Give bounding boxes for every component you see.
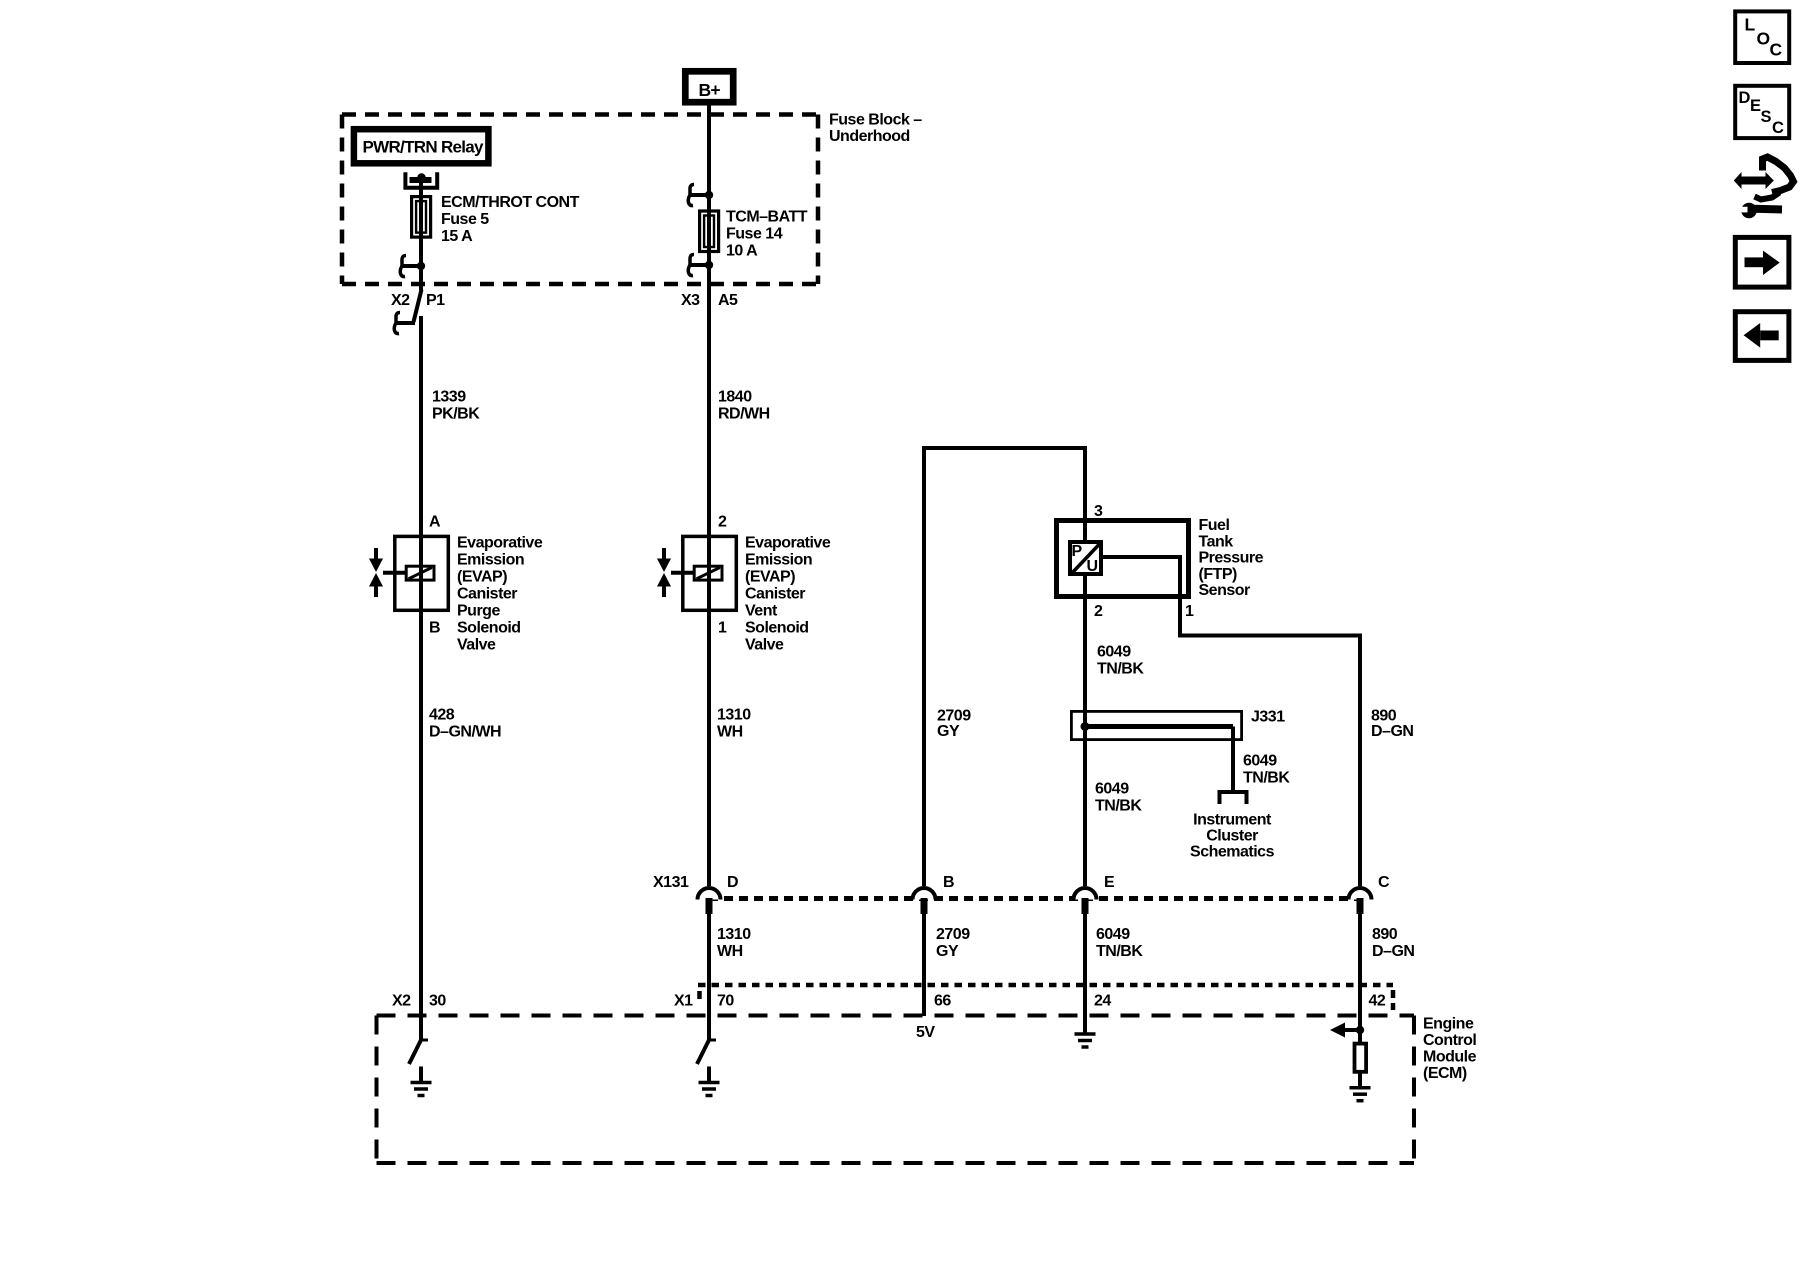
svg-text:Purge: Purge — [457, 603, 500, 620]
svg-text:D–GN: D–GN — [1371, 723, 1413, 740]
svg-text:X131: X131 — [653, 874, 689, 891]
wire 1310 WH lower — [707, 914, 711, 1040]
svg-text:Solenoid: Solenoid — [745, 620, 809, 637]
splice J331 — [1071, 711, 1241, 739]
svg-text:E: E — [1104, 874, 1115, 891]
fuse block underhood dashed box — [342, 115, 818, 285]
svg-text:P1: P1 — [426, 292, 445, 309]
svg-text:O: O — [1757, 29, 1771, 49]
svg-text:Solenoid: Solenoid — [457, 620, 521, 637]
svg-text:Evaporative: Evaporative — [745, 535, 831, 552]
PWR/TRN Relay box — [354, 129, 489, 163]
svg-text:D–GN: D–GN — [1372, 943, 1414, 960]
svg-text:D–GN/WH: D–GN/WH — [429, 724, 501, 741]
EVAP canister purge solenoid valve — [369, 536, 448, 610]
FTP sensor box — [1057, 521, 1189, 597]
next arrow button — [1735, 237, 1789, 287]
svg-text:1339: 1339 — [432, 389, 466, 406]
X1 line left end tick — [697, 991, 702, 999]
svg-text:Cluster: Cluster — [1206, 828, 1258, 845]
svg-text:2709: 2709 — [937, 707, 971, 724]
connector terminal above fuse 14 — [688, 185, 713, 206]
svg-text:A5: A5 — [718, 292, 738, 309]
connector X2 pin P1 labels — [391, 292, 445, 309]
connector terminal below fuse 5 — [400, 256, 425, 277]
svg-text:15 A: 15 A — [441, 228, 473, 245]
wire 1339 PK/BK — [419, 316, 423, 1040]
svg-text:Valve: Valve — [745, 637, 784, 654]
connector terminal below fuse 14 — [688, 255, 713, 276]
svg-text:J331: J331 — [1251, 709, 1285, 726]
svg-text:ECM/THROT CONT: ECM/THROT CONT — [441, 194, 580, 211]
svg-text:B: B — [943, 874, 954, 891]
svg-text:D: D — [1739, 89, 1751, 107]
svg-text:WH: WH — [717, 724, 743, 741]
off-page connector to instrument cluster — [1220, 792, 1247, 804]
svg-text:S: S — [1761, 108, 1772, 126]
svg-text:5V: 5V — [916, 1024, 935, 1041]
svg-text:2709: 2709 — [936, 926, 970, 943]
svg-text:P: P — [1072, 543, 1083, 560]
wire 6049 TN/BK lower — [1083, 914, 1087, 1034]
svg-text:U: U — [1087, 558, 1099, 575]
svg-text:A: A — [429, 514, 441, 531]
wire 6049 TN/BK from pin 2 — [1083, 576, 1087, 887]
EVAP canister vent solenoid valve — [657, 536, 736, 610]
svg-text:6049: 6049 — [1243, 753, 1277, 770]
resistor inside ECM — [1355, 1044, 1367, 1072]
label wire 1840 RD/WH — [718, 389, 770, 423]
wire: relay to fuse 5 (1339 feed inside fuse block) — [419, 181, 423, 290]
svg-text:Instrument: Instrument — [1193, 812, 1272, 829]
label fuse 5 — [441, 194, 580, 245]
label EVAP purge solenoid — [457, 535, 543, 654]
svg-text:(FTP): (FTP) — [1199, 566, 1238, 583]
svg-text:70: 70 — [717, 993, 734, 1010]
label ECM — [1423, 1016, 1477, 1083]
svg-text:Fuel: Fuel — [1199, 517, 1230, 534]
wire 428 D-GN/WH — [429, 707, 501, 741]
svg-text:Evaporative: Evaporative — [457, 535, 543, 552]
fuse F14 TCM-BATT — [700, 211, 719, 252]
label EVAP vent solenoid — [745, 535, 831, 654]
connector E — [1074, 888, 1097, 914]
svg-text:66: 66 — [934, 993, 951, 1010]
svg-text:PK/BK: PK/BK — [432, 406, 480, 423]
label instrument cluster schematics — [1190, 812, 1275, 861]
svg-text:890: 890 — [1372, 926, 1398, 943]
connector D — [698, 888, 721, 914]
DESC button — [1735, 86, 1789, 138]
svg-text:Canister: Canister — [457, 586, 517, 603]
label wire 6049 TN/BK lower — [1095, 781, 1142, 815]
svg-text:24: 24 — [1094, 993, 1111, 1010]
svg-text:(EVAP): (EVAP) — [457, 569, 507, 586]
wire 6049 TN/BK to instrument cluster — [1231, 727, 1235, 791]
svg-text:TN/BK: TN/BK — [1096, 943, 1143, 960]
svg-text:Emission: Emission — [457, 552, 524, 569]
svg-text:Valve: Valve — [457, 637, 496, 654]
label FTP sensor — [1199, 517, 1264, 599]
svg-text:10 A: 10 A — [726, 243, 758, 260]
label fuse 14 — [726, 209, 808, 260]
wire 890 D-GN lower — [1358, 914, 1362, 1043]
ground inside ECM left — [411, 1067, 432, 1096]
ECM dashed box — [377, 1016, 1415, 1164]
B+ power symbol — [685, 71, 733, 102]
svg-text:6049: 6049 — [1095, 781, 1129, 798]
svg-text:Sensor: Sensor — [1199, 582, 1251, 599]
svg-text:Fuse 5: Fuse 5 — [441, 211, 489, 228]
ECM driver switch pin 70 — [708, 1039, 716, 1042]
svg-text:D: D — [727, 874, 738, 891]
svg-text:42: 42 — [1369, 993, 1386, 1010]
svg-text:2: 2 — [1094, 603, 1103, 620]
fuse F5 ECM/THROT CONT — [412, 197, 431, 238]
svg-text:TN/BK: TN/BK — [1097, 661, 1144, 678]
svg-text:X1: X1 — [674, 993, 693, 1010]
wire 2709 GY lower — [922, 914, 926, 1016]
svg-text:(EVAP): (EVAP) — [745, 569, 795, 586]
svg-text:TCM–BATT: TCM–BATT — [726, 209, 808, 226]
svg-text:Engine: Engine — [1423, 1016, 1474, 1033]
svg-text:1310: 1310 — [717, 707, 751, 724]
ground inside ECM middle — [699, 1067, 720, 1096]
svg-text:1840: 1840 — [718, 389, 752, 406]
label wire 1339 PK/BK — [432, 389, 480, 423]
svg-text:PWR/TRN Relay: PWR/TRN Relay — [363, 138, 485, 157]
wire 1840 RD/WH from B+ — [707, 104, 711, 886]
ground inside ECM pin 42 — [1350, 1072, 1371, 1101]
svg-text:C: C — [1378, 874, 1390, 891]
svg-text:RD/WH: RD/WH — [718, 406, 770, 423]
label Fuse Block - Underhood — [829, 111, 922, 145]
label wire 6049 TN/BK — [1097, 644, 1144, 678]
svg-text:1310: 1310 — [717, 926, 751, 943]
svg-text:GY: GY — [937, 723, 960, 740]
svg-text:X2: X2 — [392, 993, 411, 1010]
svg-text:Vent: Vent — [745, 603, 778, 620]
connector terminal at X2/P1 — [394, 313, 415, 334]
X131 dotted line — [709, 896, 1360, 901]
svg-text:30: 30 — [429, 993, 446, 1010]
svg-text:Fuse 14: Fuse 14 — [726, 226, 783, 243]
ground inside ECM pin 24 — [1075, 1034, 1096, 1047]
svg-text:X3: X3 — [681, 292, 700, 309]
back arrow button — [1735, 312, 1789, 361]
connector B — [913, 888, 936, 914]
svg-text:1: 1 — [718, 620, 727, 637]
svg-text:Canister: Canister — [745, 586, 805, 603]
pin labels row — [392, 993, 1386, 1010]
svg-text:WH: WH — [717, 943, 743, 960]
svg-text:TN/BK: TN/BK — [1243, 770, 1290, 787]
svg-text:6049: 6049 — [1097, 644, 1131, 661]
LOC button — [1735, 11, 1789, 63]
hotlink icon (double arrow with wrench) — [1734, 157, 1794, 218]
connector C — [1349, 888, 1372, 914]
svg-text:C: C — [1770, 40, 1783, 60]
X1 line right end ticks — [1391, 990, 1396, 998]
signal arrow at pin 42 — [1330, 1023, 1364, 1038]
svg-text:Control: Control — [1423, 1032, 1476, 1049]
svg-text:GY: GY — [936, 943, 959, 960]
switch blade at X2/P1 — [414, 290, 422, 323]
svg-text:L: L — [1745, 15, 1756, 35]
svg-text:X2: X2 — [391, 292, 410, 309]
label wire 2709 GY — [937, 707, 971, 740]
svg-text:890: 890 — [1371, 707, 1397, 724]
svg-text:428: 428 — [429, 707, 455, 724]
svg-text:TN/BK: TN/BK — [1095, 798, 1142, 815]
svg-text:Module: Module — [1423, 1049, 1477, 1066]
svg-text:Schematics: Schematics — [1190, 844, 1275, 861]
wire 2709 GY loop to FTP pin 3 — [924, 448, 1085, 886]
ECM driver switch pin 30 — [420, 1039, 428, 1042]
svg-text:Underhood: Underhood — [829, 128, 910, 145]
svg-text:Tank: Tank — [1199, 533, 1234, 550]
X1 dotted connector line — [698, 983, 1393, 988]
svg-text:6049: 6049 — [1096, 926, 1130, 943]
svg-text:Emission: Emission — [745, 552, 812, 569]
wire 890 from P/U to pin 1 and down to C — [1101, 557, 1360, 886]
label wire 890 D-GN — [1371, 707, 1413, 740]
svg-text:3: 3 — [1094, 503, 1103, 520]
label wire 6049 TN/BK right — [1243, 753, 1290, 787]
svg-text:B: B — [429, 620, 440, 637]
svg-text:B+: B+ — [699, 80, 721, 100]
svg-text:E: E — [1750, 97, 1761, 115]
label wire 1310 WH upper — [717, 707, 751, 741]
P/U pressure transducer symbol — [1070, 542, 1101, 575]
svg-text:1: 1 — [1185, 603, 1194, 620]
svg-text:2: 2 — [718, 514, 727, 531]
svg-text:Fuse Block –: Fuse Block – — [829, 111, 922, 128]
svg-text:(ECM): (ECM) — [1423, 1065, 1467, 1082]
svg-text:C: C — [1772, 119, 1784, 137]
relay contact symbol — [405, 172, 437, 188]
svg-text:Pressure: Pressure — [1199, 550, 1264, 567]
connector X3 pin A5 labels — [681, 292, 738, 309]
